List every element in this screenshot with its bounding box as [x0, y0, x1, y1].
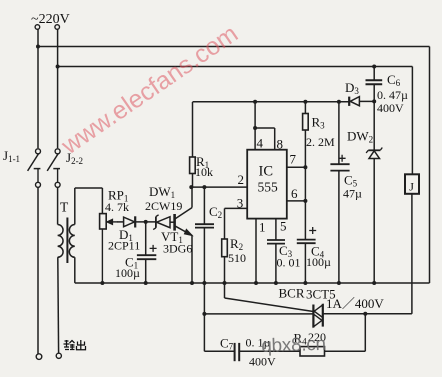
svg-text:0. 47µ: 0. 47µ [377, 88, 408, 102]
svg-text:0. 01: 0. 01 [277, 256, 301, 270]
svg-text:4. 7k: 4. 7k [105, 200, 129, 214]
svg-text:J: J [409, 180, 414, 194]
svg-text:100µ: 100µ [306, 255, 331, 269]
svg-text:J1-1: J1-1 [3, 148, 20, 164]
svg-text:510: 510 [228, 251, 246, 265]
svg-text:www.elecfans.com: www.elecfans.com [56, 20, 243, 161]
svg-text:R2: R2 [230, 236, 243, 252]
svg-text:2. 2M: 2. 2M [306, 135, 335, 149]
svg-text:3: 3 [237, 196, 244, 211]
svg-text:100µ: 100µ [115, 266, 140, 280]
svg-text:555: 555 [258, 180, 279, 195]
svg-text:5: 5 [280, 219, 287, 234]
svg-text:DW2: DW2 [347, 129, 373, 145]
svg-text:1: 1 [259, 220, 266, 235]
svg-text:D3: D3 [345, 80, 359, 96]
svg-text:6: 6 [291, 186, 298, 201]
svg-text:47µ: 47µ [343, 187, 362, 201]
svg-text:2CW19: 2CW19 [145, 199, 182, 213]
svg-text:400V: 400V [377, 101, 404, 115]
svg-text:4: 4 [257, 136, 264, 151]
svg-text:C6: C6 [387, 72, 401, 88]
svg-text:DW1: DW1 [149, 184, 175, 200]
svg-text:8: 8 [277, 137, 284, 152]
svg-text:IC: IC [259, 164, 274, 180]
svg-text:C2: C2 [209, 204, 222, 220]
svg-text:~220V: ~220V [31, 12, 70, 27]
svg-text:2: 2 [238, 172, 245, 187]
svg-text:C7: C7 [220, 336, 234, 352]
svg-text:1A／400V: 1A／400V [326, 296, 384, 311]
svg-text:T: T [60, 200, 69, 215]
svg-text:2CP11: 2CP11 [108, 239, 140, 253]
svg-text:3DG6: 3DG6 [163, 242, 192, 256]
svg-text:10k: 10k [195, 165, 213, 179]
svg-text:BCR: BCR [279, 286, 305, 301]
svg-text:R3: R3 [312, 115, 326, 131]
svg-text:qbx8.cn: qbx8.cn [261, 334, 326, 357]
svg-text:7: 7 [290, 152, 297, 167]
